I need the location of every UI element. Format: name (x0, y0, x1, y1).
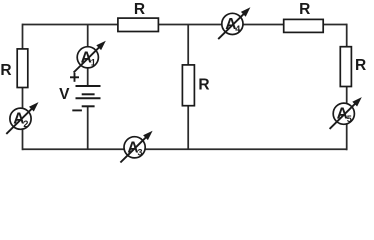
ammeter A4 (218, 7, 250, 39)
svg-text:5: 5 (347, 114, 352, 124)
svg-text:R: R (198, 77, 209, 94)
battery V plate long lower (76, 97, 101, 99)
resistor R3 (middle vertical) (182, 65, 194, 106)
battery V plate short upper (82, 93, 95, 95)
svg-text:R: R (0, 62, 11, 79)
svg-text:1: 1 (91, 57, 96, 67)
wire left branch vertical (22, 24, 24, 151)
svg-text:V: V (59, 86, 70, 103)
resistor R5 (right vertical) (340, 47, 351, 87)
battery V plate short bottom (82, 105, 95, 107)
label minus (72, 109, 82, 111)
wire battery branch vertical lower (87, 106, 89, 149)
ammeter A3 (120, 131, 152, 163)
svg-text:R: R (299, 1, 310, 18)
svg-text:4: 4 (235, 24, 240, 34)
wire bottom horizontal (23, 148, 347, 150)
wire right branch vertical (346, 24, 348, 151)
ammeter A1 (74, 41, 106, 73)
svg-text:R: R (355, 57, 366, 74)
battery V plate long top (76, 85, 101, 87)
svg-text:2: 2 (23, 119, 28, 129)
wire top horizontal (23, 24, 347, 26)
wire middle branch vertical (187, 25, 189, 150)
wire battery branch vertical upper (87, 25, 89, 87)
resistor R2 (top middle horizontal) (118, 18, 158, 31)
label plus (70, 73, 79, 82)
svg-text:R: R (134, 1, 145, 18)
resistor R1 (left vertical) (17, 49, 28, 88)
ammeter A2 (6, 102, 38, 134)
resistor R4 (top right horizontal) (284, 19, 324, 32)
svg-text:3: 3 (137, 147, 142, 157)
ammeter A5 (330, 97, 362, 129)
